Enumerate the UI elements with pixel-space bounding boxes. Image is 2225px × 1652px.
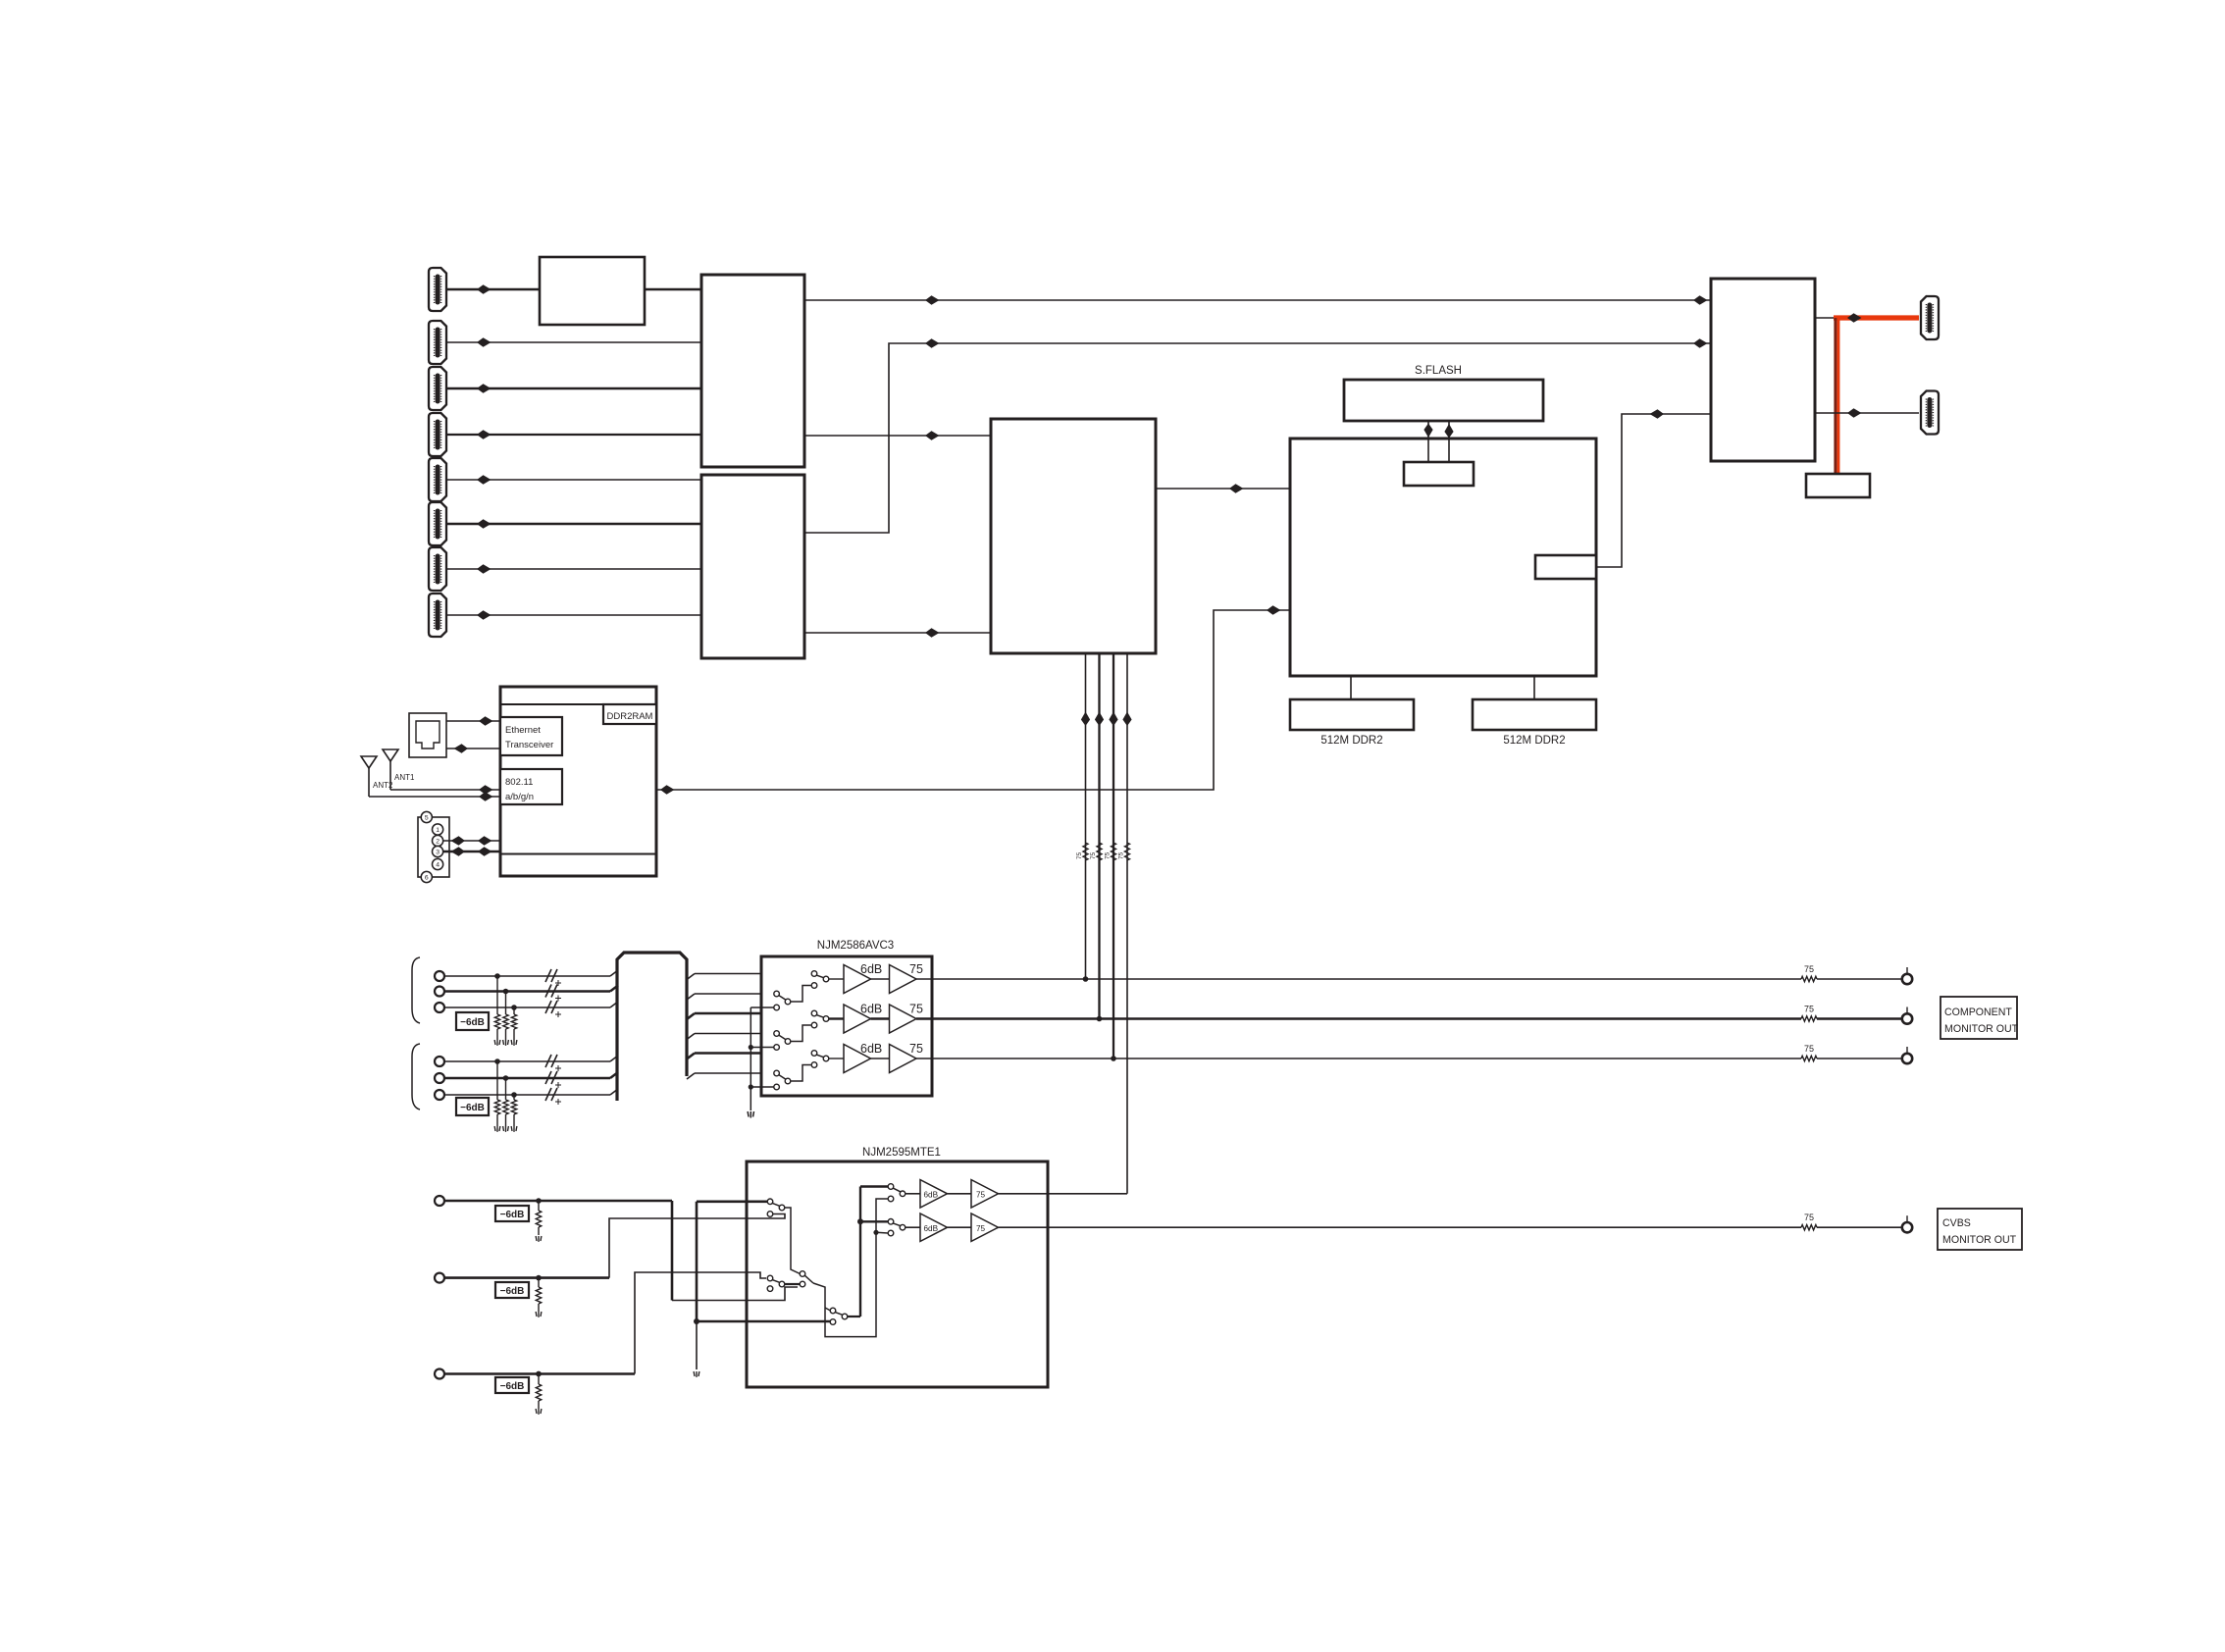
wire J4 to switch (446, 430, 701, 439)
wire CVBS3 riser to switch (635, 1272, 766, 1374)
svg-text:−6dB: −6dB (460, 1017, 485, 1028)
output resistor 75 ch2 (1801, 1005, 1817, 1022)
svg-text:75: 75 (1804, 1044, 1814, 1054)
wire U7 to HDMI TX (ARC) (1596, 409, 1711, 567)
wire selected CVBS riser (857, 1187, 888, 1317)
amplifier 6dB ch1 (844, 962, 882, 994)
input brace group 1 (412, 957, 420, 1023)
input select switch SB ch2 (811, 1010, 844, 1028)
svg-text:3: 3 (436, 849, 440, 855)
wire U3 output 2 to U5 (804, 431, 991, 440)
wire U9 to riser to U6 (656, 605, 1290, 795)
-6dB box group2 (456, 1098, 489, 1115)
wire resistor to CVBS jack (1817, 1226, 1902, 1228)
HDMI switch block U3 (701, 275, 804, 467)
component input jack group1 ch1 (435, 971, 444, 981)
junction group2 ch2 (503, 1075, 509, 1081)
wire J2 to switch (446, 337, 701, 347)
CVBS output jack (1902, 1215, 1912, 1232)
CVBS input jack 2 (435, 1273, 444, 1283)
Ethernet Transceiver box (500, 717, 562, 755)
component driver IC NJM2586AVC3 (761, 956, 932, 1096)
wire CVBS1 branch down (672, 1201, 798, 1301)
coupling cap group2 ch2 (545, 1071, 561, 1088)
wire ANT2 to U9 (369, 792, 500, 801)
junction group1 ch2 (503, 989, 509, 995)
flash controller inner box (1404, 462, 1474, 486)
svg-text:6dB: 6dB (860, 1042, 882, 1056)
termination resistor group2 ch1 (494, 1061, 499, 1126)
coupling cap group2 ch3 (545, 1088, 561, 1105)
wire U8 to HDMI OUT 1 (1815, 317, 1919, 319)
svg-text:S.FLASH: S.FLASH (1415, 365, 1462, 377)
input brace group 2 (412, 1044, 420, 1110)
wire U4 output 1 to HDMI TX U8 (804, 338, 1711, 533)
HDMI input connector J2 (429, 321, 446, 364)
trunk output wire 1 (687, 974, 811, 980)
red highlight wire vertical (1834, 318, 1839, 476)
wire amp to driver ch3 (871, 1058, 890, 1059)
repeater box U2 (540, 257, 645, 325)
coupling cap group1 ch3 (545, 1001, 561, 1017)
trunk output wire 4 (687, 1034, 774, 1040)
HDMI input connector J4 (429, 413, 446, 456)
wire switch link vertical (873, 1230, 888, 1235)
svg-text:MONITOR OUT: MONITOR OUT (1942, 1234, 2017, 1246)
video monitor feed line 2 to U5 (1095, 653, 1104, 1019)
driver 75 cvbs2 (971, 1213, 999, 1242)
S.FLASH box (1344, 380, 1543, 421)
wire CVBS input 1 (444, 1198, 672, 1204)
svg-text:Transceiver: Transceiver (505, 740, 553, 750)
svg-text:75: 75 (1076, 852, 1083, 859)
svg-text:1: 1 (436, 827, 440, 834)
wire U4 output 2 to U5 (804, 628, 991, 638)
ground group1 ch1 (494, 1040, 500, 1046)
CVBS input jack 3 (435, 1369, 444, 1379)
wire J3 to switch (446, 384, 701, 393)
wire CVBS2 riser to switch (609, 1214, 785, 1278)
wire amp to driver ch2 (871, 1017, 890, 1019)
ground CVBS 3 (536, 1409, 542, 1415)
HDMI interface inner box U7 (1535, 555, 1596, 579)
wire CVBS input 2 (444, 1275, 609, 1281)
svg-text:NJM2586AVC3: NJM2586AVC3 (817, 940, 894, 952)
junction group2 ch3 (511, 1092, 517, 1098)
label ANT2 (373, 781, 393, 790)
ground CVBS 2 (536, 1312, 542, 1317)
ground group1 ch3 (511, 1040, 517, 1046)
CVBS driver IC NJM2595MTE1 (747, 1162, 1048, 1387)
trunk output wire 2 (687, 994, 774, 1000)
svg-text:75: 75 (909, 962, 923, 976)
SoC block U6 (1290, 439, 1596, 676)
HDMI transmitter block U8 (1711, 279, 1815, 461)
wire ANT1 to U9 (390, 785, 500, 795)
trunk output wire 5 (687, 1054, 811, 1059)
switch T4b (888, 1219, 920, 1236)
resistor 75 on feed line 2 (1090, 843, 1102, 860)
wire J1 to repeater box U2 (446, 284, 540, 294)
switch T3 (830, 1308, 860, 1324)
driver 75 ch1 (890, 962, 923, 994)
component output jack ch1 (1902, 967, 1912, 984)
wire U2 to switch U3 (645, 288, 701, 291)
amplifier 6dB cvbs1 (920, 1180, 948, 1209)
wire component input group2 ch1 (444, 1056, 618, 1061)
wire CVBS sync riser (694, 1202, 831, 1369)
HDMI input connector J8 (429, 594, 446, 637)
svg-text:6dB: 6dB (860, 1003, 882, 1016)
amplifier 6dB ch2 (844, 1003, 882, 1034)
ground group1 ch2 (503, 1040, 509, 1046)
label ANT1 (394, 773, 415, 782)
wire J8 to switch (446, 610, 701, 620)
remote jack connector (418, 811, 449, 882)
termination resistor group2 ch2 (503, 1078, 508, 1126)
svg-text:75: 75 (909, 1003, 923, 1016)
wire S.FLASH data up (1444, 421, 1453, 462)
wire resistor to jack ch1 (1817, 978, 1902, 980)
coupling cap group2 ch1 (545, 1055, 561, 1071)
svg-text:ANT1: ANT1 (394, 773, 415, 782)
svg-text:75: 75 (1105, 852, 1112, 859)
resistor 75 on feed line 4 (1118, 843, 1130, 860)
output resistor 75 ch1 (1801, 964, 1817, 982)
video processor block U5 (991, 419, 1156, 653)
trunk output wire 6 (687, 1073, 774, 1079)
label DDR2RAM (607, 711, 653, 722)
wire U6 DDR2 channel A (1350, 676, 1352, 699)
svg-text:75: 75 (976, 1224, 986, 1233)
svg-text:75: 75 (1090, 852, 1097, 859)
switch T2b (800, 1199, 888, 1337)
video monitor feed line 1 to U5 (1081, 653, 1090, 979)
wire component input group1 ch3 (444, 1002, 618, 1007)
svg-text:6dB: 6dB (924, 1224, 939, 1233)
junction group1 ch3 (511, 1005, 517, 1010)
DDR2 memory box 1 (1290, 699, 1414, 730)
switch T4a (888, 1184, 920, 1202)
label box CVBS MONITOR OUT (1938, 1209, 2022, 1250)
wire amp to driver ch1 (871, 978, 890, 980)
switch T1 (767, 1199, 800, 1274)
label 512M DDR2 (2) (1503, 735, 1565, 747)
HDMI input connector J6 (429, 502, 446, 545)
input select switch SA ch3 (750, 1065, 810, 1090)
HDMI output connector CN1 (1921, 296, 1939, 339)
svg-text:6dB: 6dB (860, 962, 882, 976)
CVBS monitor output wire (999, 1226, 1802, 1228)
wire CVBS input 3 (444, 1371, 635, 1377)
video monitor feed line 3 to U5 (1109, 653, 1117, 1058)
label NJM2595MTE1 (862, 1147, 941, 1159)
ground of switch bus (748, 1111, 753, 1118)
component output jack ch3 (1902, 1047, 1912, 1063)
junction group2 ch1 (494, 1058, 500, 1064)
wire U8 to HDMI OUT 2 (1815, 408, 1919, 418)
termination resistor group2 ch3 (511, 1095, 516, 1126)
wire J6 to switch (446, 519, 701, 529)
svg-text:512M DDR2: 512M DDR2 (1320, 735, 1382, 747)
wire RJ45 RX (446, 744, 500, 753)
HDMI input connector J7 (429, 547, 446, 591)
termination resistor CVBS 2 (536, 1278, 541, 1312)
svg-text:Ethernet: Ethernet (505, 725, 541, 736)
label 512M DDR2 (1) (1320, 735, 1382, 747)
HDMI switch block U4 (701, 475, 804, 658)
inner bottom divider line of U9 (500, 853, 656, 855)
wire amp to driver cvbs1 (948, 1193, 972, 1195)
ground group2 ch1 (494, 1126, 500, 1132)
driver 75 ch2 (890, 1003, 923, 1034)
label box COMPONENT MONITOR OUT (1940, 997, 2019, 1039)
wire J7 to switch (446, 564, 701, 574)
resistor 75 on feed line 1 (1076, 843, 1088, 860)
termination resistor group1 ch3 (511, 1007, 516, 1040)
wire cvbs1 to monitor feed (999, 1193, 1128, 1195)
svg-text:ANT2: ANT2 (373, 781, 393, 790)
termination resistor CVBS 3 (536, 1374, 541, 1410)
svg-text:4: 4 (436, 861, 440, 868)
antenna ANT1 (383, 749, 398, 790)
component output wire ch2 (916, 1017, 1801, 1019)
wire component input group1 ch2 (444, 986, 618, 992)
label Ethernet Transceiver (505, 725, 553, 750)
switch ground bus (749, 1007, 753, 1110)
-6dB box CVBS 1 (495, 1206, 529, 1221)
CVBS input jack 1 (435, 1196, 444, 1206)
component output wire ch1 (916, 978, 1801, 980)
svg-text:a/b/g/n: a/b/g/n (505, 792, 534, 802)
component output wire ch3 (916, 1058, 1801, 1059)
wire S.FLASH data down (1423, 421, 1432, 462)
junction feed line 3 (1111, 1056, 1116, 1061)
termination resistor group1 ch2 (503, 992, 508, 1041)
component output jack ch2 (1902, 1007, 1912, 1024)
output resistor 75 ch3 (1801, 1044, 1817, 1061)
DDR2RAM box (603, 704, 656, 724)
wire RJ45 TX (446, 716, 500, 726)
junction feed line 2 (1097, 1016, 1103, 1022)
coupling cap group1 ch2 (545, 985, 561, 1002)
svg-text:NJM2595MTE1: NJM2595MTE1 (862, 1147, 941, 1159)
amplifier 6dB ch3 (844, 1042, 882, 1073)
input select switch SA ch2 (750, 1025, 810, 1050)
svg-text:CVBS: CVBS (1942, 1217, 1971, 1229)
svg-text:−6dB: −6dB (460, 1103, 485, 1113)
component input jack group2 ch1 (435, 1057, 444, 1066)
svg-text:6: 6 (425, 874, 429, 881)
wire U6 DDR2 channel B (1533, 676, 1535, 699)
red highlight wire horizontal (1834, 315, 1919, 320)
termination resistor CVBS 1 (536, 1201, 541, 1235)
802.11 box (500, 769, 562, 804)
-6dB box CVBS 3 (495, 1377, 529, 1393)
svg-text:802.11: 802.11 (505, 777, 533, 788)
svg-text:75: 75 (1118, 852, 1125, 859)
DDR2 memory box 2 (1473, 699, 1596, 730)
svg-text:75: 75 (1804, 1213, 1814, 1222)
ground group2 ch3 (511, 1126, 517, 1132)
svg-text:DDR2RAM: DDR2RAM (607, 711, 653, 722)
label 802.11 a/b/g/n (505, 777, 534, 802)
HDMI output connector CN2 (1921, 391, 1939, 435)
svg-text:MONITOR OUT: MONITOR OUT (1944, 1023, 2019, 1035)
svg-text:75: 75 (1804, 964, 1814, 974)
svg-text:−6dB: −6dB (500, 1381, 525, 1392)
wire amp to driver cvbs2 (948, 1226, 972, 1228)
input select switch SA ch1 (750, 986, 810, 1010)
arrow on HDMI OUT 1 wire (1847, 313, 1862, 323)
component input jack group1 ch3 (435, 1003, 444, 1012)
HDMI input connector J5 (429, 458, 446, 501)
ground CVBS 1 (536, 1236, 542, 1242)
svg-text:−6dB: −6dB (500, 1210, 525, 1220)
driver 75 ch3 (890, 1042, 923, 1073)
trunk output wire 3 (687, 1013, 811, 1019)
component input jack group2 ch2 (435, 1073, 444, 1083)
svg-text:75: 75 (909, 1042, 923, 1056)
amplifier 6dB cvbs2 (920, 1213, 948, 1242)
wire resistor to jack ch2 (1817, 1017, 1902, 1019)
svg-text:6dB: 6dB (924, 1191, 939, 1200)
wire U5 to SoC U6 (1156, 484, 1290, 493)
junction feed line 1 (1083, 976, 1089, 982)
HDMI input connector J1 (429, 268, 446, 311)
wire remote pin2 to U9 (443, 836, 500, 846)
wire U3 output 1 to HDMI TX U8 (804, 295, 1711, 305)
termination resistor group1 ch1 (494, 976, 499, 1040)
cable trunk bundle (617, 953, 687, 1101)
coupling cap group1 ch1 (545, 969, 561, 986)
switch T2a (767, 1275, 800, 1291)
component input jack group2 ch3 (435, 1090, 444, 1100)
video monitor feed line 4 to U5 (1122, 653, 1131, 1194)
input select switch SB ch3 (811, 1051, 844, 1068)
input select switch SB ch1 (811, 971, 844, 989)
component input jack group1 ch2 (435, 987, 444, 997)
wire resistor to jack ch3 (1817, 1058, 1902, 1059)
driver 75 cvbs1 (971, 1180, 999, 1209)
svg-text:5: 5 (425, 814, 429, 821)
RJ45 ethernet jack (409, 713, 446, 757)
wire J5 to switch (446, 475, 701, 485)
svg-text:2: 2 (436, 838, 440, 845)
inner divider line of U9 (500, 703, 656, 705)
wire remote pin3 to U9 (443, 847, 500, 856)
-6dB box group1 (456, 1012, 489, 1030)
label S.FLASH (1415, 365, 1462, 377)
HDMI input connector J3 (429, 367, 446, 410)
svg-text:−6dB: −6dB (500, 1286, 525, 1297)
antenna ANT2 (361, 756, 377, 797)
wire component input group2 ch3 (444, 1089, 618, 1095)
ground group2 ch2 (503, 1126, 509, 1132)
HDMI control box below U8 (1806, 474, 1870, 497)
wire component input group1 ch1 (444, 970, 618, 976)
svg-text:COMPONENT: COMPONENT (1944, 1007, 2012, 1018)
svg-text:75: 75 (976, 1191, 986, 1200)
label NJM2586AVC3 (817, 940, 894, 952)
wire component input group2 ch2 (444, 1072, 618, 1078)
svg-text:75: 75 (1804, 1005, 1814, 1014)
-6dB box CVBS 2 (495, 1282, 529, 1298)
ground CVBS sync (694, 1371, 699, 1377)
network module block U9 (500, 687, 656, 876)
resistor 75 on feed line 3 (1105, 843, 1116, 860)
output resistor 75 cvbs (1801, 1213, 1817, 1230)
svg-text:512M DDR2: 512M DDR2 (1503, 735, 1565, 747)
junction group1 ch1 (494, 973, 500, 979)
